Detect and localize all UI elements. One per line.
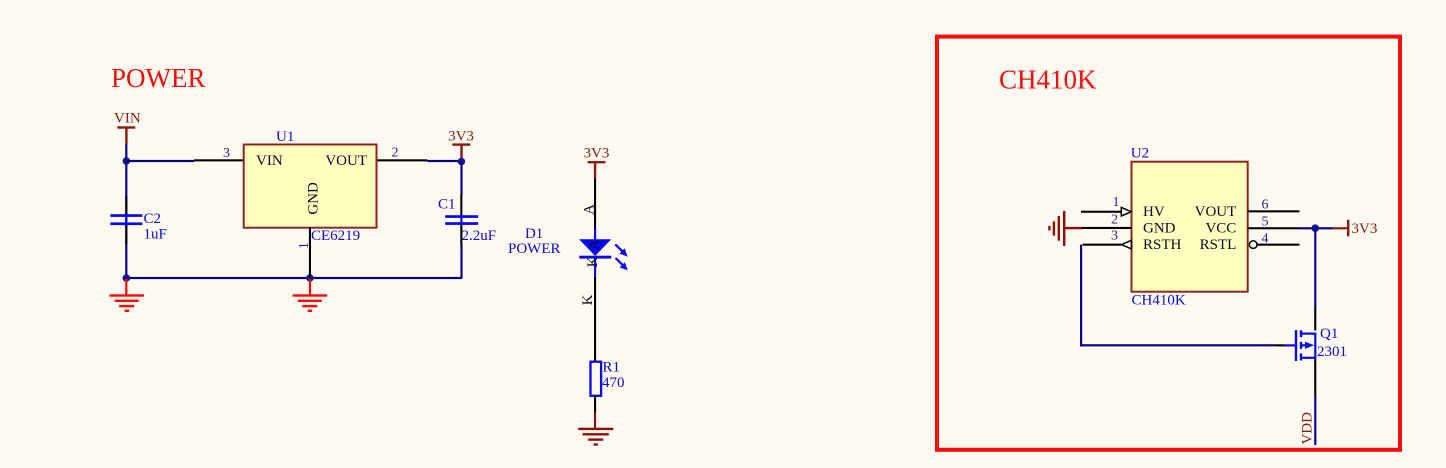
ground (rotated, U2 GND) <box>1048 211 1082 246</box>
svg-text:VIN: VIN <box>256 153 283 169</box>
pin 3 of U1 <box>194 159 244 161</box>
svg-text:2301: 2301 <box>1317 344 1347 360</box>
regulator U1 <box>244 129 377 244</box>
svg-text:D1: D1 <box>525 226 543 242</box>
ground (LED branch, dark) <box>578 428 613 446</box>
wire R1 to ground <box>594 396 596 413</box>
svg-text:VIN: VIN <box>114 111 141 127</box>
svg-text:R1: R1 <box>603 360 621 376</box>
node junction 3V3 <box>458 158 466 166</box>
svg-text:C1: C1 <box>438 197 456 213</box>
svg-text:POWER: POWER <box>111 63 206 93</box>
svg-text:2: 2 <box>1111 213 1118 228</box>
svg-text:GND: GND <box>1143 221 1176 237</box>
svg-text:4: 4 <box>1262 232 1269 247</box>
svg-text:GND: GND <box>306 182 322 215</box>
wire VIN vertical <box>125 144 127 278</box>
capacitor C2 <box>110 196 167 244</box>
node junction VCC <box>1311 224 1319 232</box>
svg-text:5: 5 <box>1262 214 1269 229</box>
svg-text:CH410K: CH410K <box>999 65 1097 95</box>
node junction U1 GND <box>306 274 314 282</box>
pin 4 of U2 (RSTL) <box>1249 241 1257 249</box>
svg-text:1: 1 <box>297 242 312 249</box>
pin 1 of U1 (GND) <box>309 228 311 278</box>
svg-text:3V3: 3V3 <box>448 129 474 145</box>
node junction bottom-left <box>123 274 131 282</box>
svg-text:VCC: VCC <box>1205 221 1236 237</box>
wire pin2 to 3V3 node <box>427 160 461 162</box>
svg-text:RSTL: RSTL <box>1200 237 1237 253</box>
LED D1 <box>579 228 628 277</box>
transistor Q1 <box>1284 326 1347 361</box>
svg-text:3: 3 <box>223 146 230 161</box>
svg-text:3: 3 <box>1111 229 1118 244</box>
svg-text:VOUT: VOUT <box>325 153 367 169</box>
svg-text:K: K <box>580 294 596 305</box>
svg-text:2.2uF: 2.2uF <box>462 228 497 244</box>
pin 6 of U2 (VOUT) <box>1248 210 1300 212</box>
ground (left) <box>110 279 145 312</box>
power port VIN <box>114 111 141 145</box>
svg-text:VDD: VDD <box>1300 412 1316 445</box>
power port 3V3 (LED branch) <box>584 145 610 178</box>
svg-text:CH410K: CH410K <box>1132 293 1186 309</box>
pin 2 of U1 <box>377 159 427 161</box>
svg-text:470: 470 <box>602 375 625 391</box>
wire Q1 source down <box>1314 359 1316 395</box>
power port 3V3 (left) <box>448 129 474 158</box>
svg-text:2: 2 <box>392 146 399 161</box>
pin 3 of U2 (RSTH) <box>1083 244 1122 246</box>
pin 2 of U2 (GND) <box>1082 227 1132 229</box>
pin 5 of U2 (VCC) <box>1248 227 1299 229</box>
chip U2 <box>1131 146 1248 309</box>
ground (center, U1 GND) <box>293 279 328 312</box>
wire to U1 pin 3 <box>127 160 194 162</box>
power port 3V3 (right) <box>1347 220 1377 237</box>
svg-text:K: K <box>585 256 601 267</box>
capacitor C1 <box>438 194 496 246</box>
svg-text:CE6219: CE6219 <box>311 228 360 244</box>
svg-text:U2: U2 <box>1131 146 1149 162</box>
wire VCC to 3V3 <box>1299 227 1333 229</box>
svg-text:C2: C2 <box>144 211 162 227</box>
svg-text:VOUT: VOUT <box>1195 204 1237 220</box>
wire LED cathode to R1 <box>594 277 596 362</box>
wire 3V3 to LED anode <box>594 178 596 228</box>
svg-text:1: 1 <box>1113 195 1120 210</box>
node junction VIN/wire <box>123 157 131 165</box>
wire C1 down to rail <box>460 245 462 279</box>
svg-text:A: A <box>581 204 597 215</box>
svg-text:U1: U1 <box>276 129 294 145</box>
section border CH410K <box>937 37 1400 450</box>
wire 3V3 down to C1 <box>460 162 462 195</box>
wire RSTH to Q1 gate <box>1080 245 1082 347</box>
svg-text:RSTH: RSTH <box>1143 237 1182 253</box>
wire bottom rail <box>126 277 462 279</box>
svg-text:3V3: 3V3 <box>1352 221 1378 237</box>
svg-text:3V3: 3V3 <box>584 145 610 161</box>
svg-text:6: 6 <box>1262 197 1269 212</box>
wire VCC node down to Q1 <box>1314 232 1316 309</box>
svg-text:Q1: Q1 <box>1320 326 1338 342</box>
svg-text:1uF: 1uF <box>144 227 167 243</box>
resistor R1 <box>591 360 625 396</box>
svg-text:HV: HV <box>1143 204 1165 220</box>
pin 1 of U2 (HV) <box>1081 211 1121 213</box>
svg-text:POWER: POWER <box>508 241 561 257</box>
svg-text:A: A <box>587 239 603 250</box>
